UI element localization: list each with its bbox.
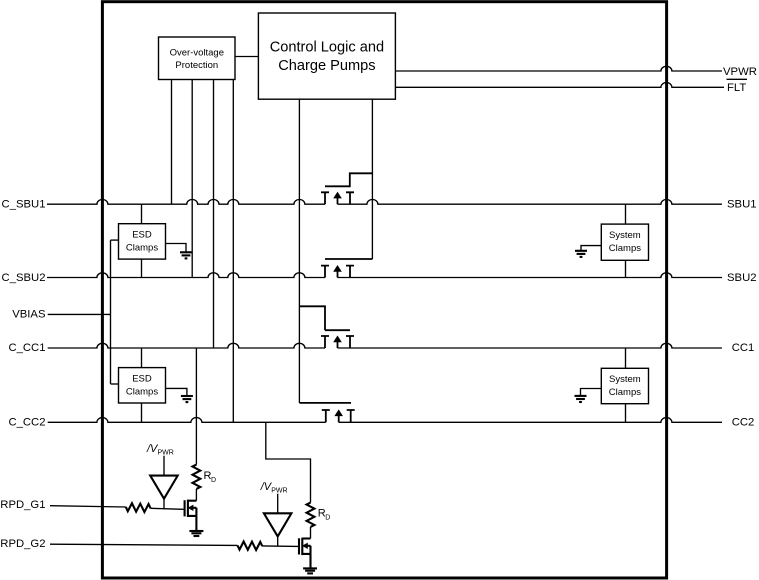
svg-text:SBU1: SBU1 [727,198,757,210]
resistor RD2 [307,503,331,527]
inverter U2 (/VPWR buffer 1) [146,443,178,509]
svg-text:VPWR: VPWR [723,66,757,78]
svg-text:Charge Pumps: Charge Pumps [278,58,375,74]
svg-text:RPD_G1: RPD_G1 [0,499,45,511]
wire RD1 to M1 drain [195,489,197,501]
wire RPD_G2 input [50,544,238,545]
transistor M2 (RPD_G2 pulldown) [299,538,311,569]
svg-text:ESD: ESD [132,373,152,384]
transistor Q4 CC2 pass FET [299,403,354,422]
svg-text:CC1: CC1 [732,342,755,354]
Control Logic and Charge Pumps box U1 [258,13,395,99]
Over-voltage Protection box [159,37,236,80]
wire SC1 top to SBU1 [625,204,627,224]
svg-text:D: D [211,477,216,484]
wire ESD2 bottom to C_CC2 [141,403,143,422]
wire ESD1 bottom to C_SBU2 [141,259,143,277]
wire control-logic right gate bus [371,99,373,259]
svg-text:FLT: FLT [727,82,746,94]
ground G6 [303,568,317,573]
wire ESD1 left to VBIAS bus [111,239,119,241]
svg-text:Clamps: Clamps [609,387,641,398]
wire C_CC1 down to RD1 [195,348,197,465]
System Clamps box 2 [601,368,648,403]
wire SC2 top to CC1 [625,348,627,368]
svg-text:PWR: PWR [158,450,174,457]
wire VBIAS line [48,313,111,315]
wire ESD1 right to ground [166,244,187,253]
wire ESD1 top to C_SBU1 [141,204,143,224]
wire FLT from control logic [395,83,724,88]
svg-text:Over-voltage: Over-voltage [170,48,224,59]
svg-text:C_CC2: C_CC2 [8,417,45,429]
svg-text:PWR: PWR [271,488,287,495]
svg-text:C_CC1: C_CC1 [8,342,45,354]
wire RD2 to M2 drain [310,527,312,539]
svg-text:C_SBU1: C_SBU1 [2,198,46,210]
svg-text:System: System [609,374,641,385]
wire C_CC1 / CC1 line [48,343,722,348]
wire C_CC2 / CC2 line [48,418,722,423]
svg-text:Protection: Protection [175,60,218,71]
wire SC1 bottom to SBU2 [625,260,627,277]
svg-text:Clamps: Clamps [126,242,158,253]
svg-text:System: System [609,230,641,241]
wire C_SBU2 / SBU2 line [47,273,722,278]
wire OVP to Control Logic [235,56,258,58]
wire OVP pin3 to C_CC1 line [213,80,215,349]
System Clamps box 1 [601,224,648,260]
ground G3 [575,251,587,257]
svg-text:Clamps: Clamps [609,243,641,254]
wire RPD_G1 input [50,506,126,507]
wire R1 to gate M1 [151,508,184,509]
ESD Clamps box 2 [119,368,166,403]
transistor Q3 CC1 pass FET [299,306,354,348]
IC boundary [102,2,666,578]
wire SC2 left to ground [581,389,602,396]
svg-text:ESD: ESD [132,229,152,240]
wire control-logic left gate bus [298,99,300,403]
transistor M1 (RPD_G1 pulldown) [185,500,197,531]
wire OVP pin4 to C_CC2 line [232,80,234,423]
wire SC1 left to ground [581,246,601,251]
transistor Q1 SBU1 pass FET [321,173,372,204]
ground G5 [189,531,203,536]
ESD Clamps box 1 [119,224,166,259]
wire ESD2 top to C_CC1 [141,348,143,368]
svg-text:D: D [325,515,330,522]
inverter U3 (/VPWR buffer 2) [260,481,292,546]
resistor RD1 [193,465,217,489]
wire R2 to gate M2 [262,545,298,548]
resistor R1 (RPD_G1 series) [126,503,151,512]
wire OVP pin1 to C_SBU1 line [171,80,173,205]
svg-text:C_SBU2: C_SBU2 [2,272,46,284]
svg-text:RPD_G2: RPD_G2 [0,538,45,550]
transistor Q2 SBU2 pass FET [321,259,372,278]
resistor R2 (RPD_G2 series) [238,542,263,551]
wire ESD2 right to ground [166,388,187,396]
wire OVP pin2 to C_SBU2 line [191,80,193,278]
wire ESD2 left to VBIAS bus [111,383,119,385]
svg-text:CC2: CC2 [732,417,755,429]
wire C_SBU1 / SBU1 line [47,199,722,204]
wire VPWR from control logic [395,66,722,71]
ground G2 [181,396,193,402]
ground G1 [180,252,192,258]
wire VBIAS vertical bus [110,240,112,384]
svg-text:SBU2: SBU2 [727,272,757,284]
svg-text:Clamps: Clamps [126,386,158,397]
svg-text:Control Logic and: Control Logic and [270,40,384,56]
wire SC2 bottom to CC2 [625,404,627,423]
svg-text:VBIAS: VBIAS [12,309,46,321]
ground G4 [575,396,587,402]
wire C_CC2 down to RD2 [266,422,311,502]
